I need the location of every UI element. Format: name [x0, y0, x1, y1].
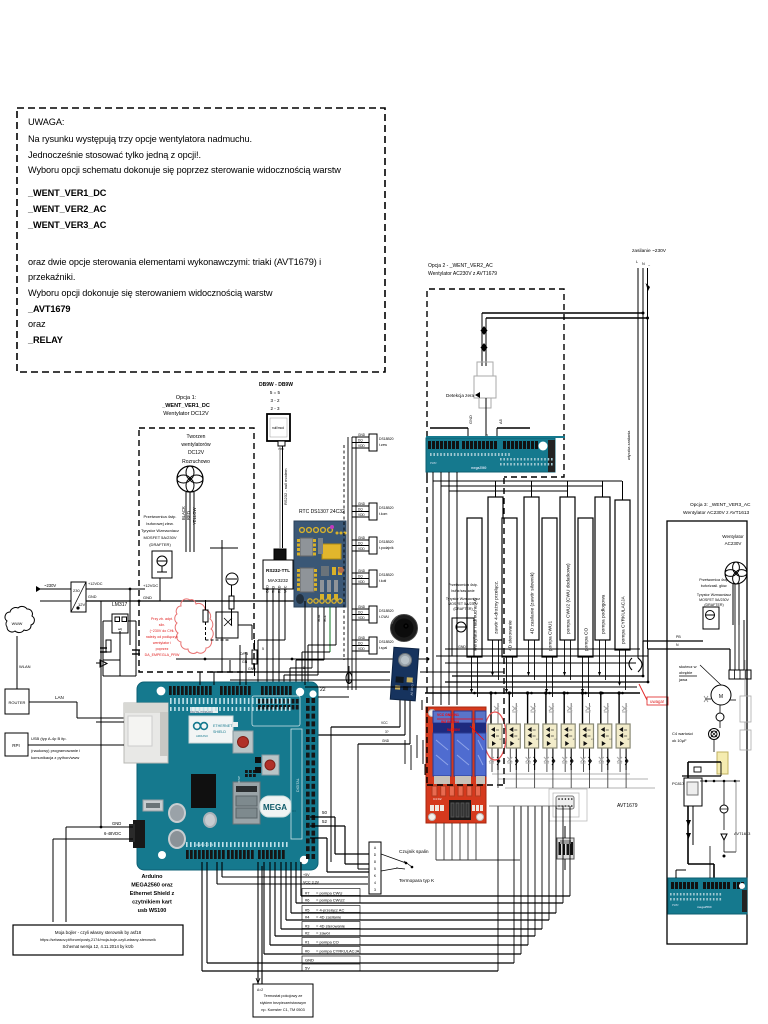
svg-text:Detekcja zera: Detekcja zera [446, 393, 475, 398]
svg-text:np. Komster C1, TM 0503: np. Komster C1, TM 0503 [261, 1008, 304, 1012]
svg-text:RTC DS1307 24C32: RTC DS1307 24C32 [299, 509, 345, 515]
svg-text:#6: #6 [305, 898, 310, 903]
svg-text:GND: GND [88, 595, 97, 599]
svg-text:4D zasilanie (zawór siłownik): 4D zasilanie (zawór siłownik) [530, 572, 536, 634]
svg-text:Moja bojler - czyli własny ste: Moja bojler - czyli własny sterownik by … [55, 930, 142, 935]
svg-text:PWR: PWR [430, 461, 437, 465]
svg-text:SHIELD: SHIELD [213, 730, 226, 734]
svg-text:DS18B20: DS18B20 [379, 540, 394, 544]
svg-text:t.zew: t.zew [379, 443, 387, 447]
svg-text:GND: GND [112, 821, 121, 826]
svg-text:Ethernet Shield z: Ethernet Shield z [130, 891, 175, 897]
svg-text:(DRAFTER): (DRAFTER) [453, 607, 472, 611]
svg-text:Termostat pokojowy ze: Termostat pokojowy ze [264, 994, 303, 998]
svg-text:C4 wartości: C4 wartości [672, 731, 693, 736]
svg-text:bufor/zasilanie: bufor/zasilanie [451, 589, 474, 593]
svg-text:PB: PB [676, 635, 681, 639]
svg-text:Schemat wersja 12, 4.11.2014 b: Schemat wersja 12, 4.11.2014 by krzb [63, 944, 135, 949]
svg-text:D/PB: D/PB [240, 652, 249, 656]
svg-text:4D sterowanie: 4D sterowanie [508, 620, 514, 651]
svg-text:Wentylator AC230V z AVT1679: Wentylator AC230V z AVT1679 [428, 271, 497, 277]
svg-text:PWR: PWR [672, 903, 679, 907]
svg-text:uwaga!: uwaga! [650, 699, 664, 704]
svg-text:= 4-przełącz AC: = 4-przełącz AC [316, 908, 344, 913]
svg-text:VCC: VCC [381, 721, 388, 725]
svg-text:AVT1679: AVT1679 [617, 803, 638, 809]
svg-text:MAX3232: MAX3232 [268, 578, 289, 583]
svg-text:#7: #7 [305, 891, 310, 896]
svg-text:GND: GND [358, 569, 366, 573]
svg-text:pompa CYRKULACJA: pompa CYRKULACJA [621, 595, 627, 644]
svg-text:VDD: VDD [358, 616, 365, 620]
svg-text:ARDUINO: ARDUINO [196, 734, 208, 738]
svg-text:VCC 3,3V: VCC 3,3V [303, 881, 320, 885]
svg-text:Wyboru opcji schematu dokonuje: Wyboru opcji schematu dokonuje się poprz… [28, 165, 341, 175]
svg-text:= pompa CYRKULACJA: = pompa CYRKULACJA [316, 949, 360, 954]
svg-text:USB (typ A-4p B itp.: USB (typ A-4p B itp. [31, 736, 67, 741]
svg-text:DS18B20: DS18B20 [379, 573, 394, 577]
svg-text:AVT1613: AVT1613 [734, 831, 751, 836]
svg-text:komunikacja z python/www: komunikacja z python/www [31, 755, 79, 760]
svg-text:Przetwornica 4stp.: Przetwornica 4stp. [699, 578, 729, 582]
svg-text:VDD: VDD [358, 547, 365, 551]
svg-text:VDD: VDD [358, 444, 365, 448]
svg-text:Czujnik spalin: Czujnik spalin [399, 849, 429, 855]
svg-text:DS18B20: DS18B20 [379, 437, 394, 441]
svg-text:DQ: DQ [358, 439, 363, 443]
svg-text:(DRAFTER): (DRAFTER) [149, 542, 171, 547]
svg-text:GND: GND [358, 433, 366, 437]
svg-text:IN2 IN3 IN4: IN2 IN3 IN4 [441, 720, 459, 724]
svg-text:= zawór: = zawór [316, 931, 331, 936]
svg-text:Tyrystor Wzmacniacz: Tyrystor Wzmacniacz [141, 528, 179, 533]
svg-text:t.spal: t.spal [379, 646, 387, 650]
svg-text:GND: GND [358, 636, 366, 640]
svg-text:GND: GND [266, 585, 270, 593]
svg-text:5: 5 [374, 867, 376, 871]
svg-text:DS18B20: DS18B20 [379, 609, 394, 613]
svg-text:5V: 5V [305, 966, 310, 971]
svg-text:Wentylator AC230V z AVT1613: Wentylator AC230V z AVT1613 [683, 510, 750, 516]
svg-text:= 4D zasilanie: = 4D zasilanie [316, 915, 342, 920]
svg-text:TXD: TXD [272, 586, 276, 593]
svg-text:= pompa CO: = pompa CO [316, 940, 339, 945]
svg-text:Przetwornica 4stp.: Przetwornica 4stp. [448, 583, 478, 587]
svg-text:Przetwornica 4stp.: Przetwornica 4stp. [144, 514, 177, 519]
svg-text:VDD: VDD [358, 580, 365, 584]
svg-text:Rozruchowo: Rozruchowo [182, 459, 210, 465]
svg-text:t.CWU: t.CWU [379, 615, 390, 619]
svg-text:adj: adj [118, 627, 122, 631]
svg-text:oraz: oraz [28, 319, 46, 329]
svg-text:DIGITAL: DIGITAL [296, 778, 300, 792]
svg-text:GND: GND [358, 536, 366, 540]
svg-text:SCL: SCL [323, 615, 327, 622]
svg-text:RS232 - null modem: RS232 - null modem [283, 468, 288, 505]
svg-text:VDD: VDD [358, 647, 365, 651]
svg-text:DIGITAL PWM+DKI: DIGITAL PWM+DKI [190, 710, 213, 714]
svg-text:R3: R3 [292, 809, 296, 813]
svg-text:GND: GND [143, 595, 152, 600]
svg-text:2 - 3: 2 - 3 [270, 406, 280, 411]
svg-text:_AVT1679: _AVT1679 [27, 304, 70, 314]
svg-text:PC817: PC817 [672, 781, 685, 786]
svg-text:= 4D sterowanie: = 4D sterowanie [316, 924, 346, 929]
svg-text:Tworzen: Tworzen [187, 434, 206, 440]
svg-text:MOSFET 5A/230V: MOSFET 5A/230V [699, 598, 729, 602]
svg-text:DC12V: DC12V [188, 450, 205, 456]
svg-text:YELLOW: YELLOW [192, 507, 197, 525]
svg-text:Wentylator: Wentylator [722, 534, 744, 539]
svg-text:LM317: LM317 [112, 602, 128, 608]
svg-text:skutecz w: skutecz w [679, 664, 697, 669]
svg-text:RXD: RXD [278, 585, 282, 593]
svg-text:bufor/zasil. głów.: bufor/zasil. głów. [701, 584, 728, 588]
svg-text:zasilanie ~230V: zasilanie ~230V [632, 248, 667, 254]
svg-text:230: 230 [73, 588, 80, 593]
svg-text:~230V: ~230V [44, 583, 56, 588]
svg-text:zawór 4-drożny przełącz.: zawór 4-drożny przełącz. [494, 581, 500, 634]
svg-text:4: 4 [374, 881, 376, 885]
svg-text:+12VDC: +12VDC [88, 582, 103, 586]
svg-text:5A 250V: 5A 250V [447, 728, 461, 732]
svg-text:12V: 12V [78, 602, 85, 607]
svg-text:Przy zb. adpt.: Przy zb. adpt. [151, 617, 173, 621]
svg-text:#3: #3 [305, 924, 310, 929]
svg-text:= pompa CWU: = pompa CWU [316, 891, 342, 896]
svg-text:Opcja 3: _WENT_VER3_AC: Opcja 3: _WENT_VER3_AC [690, 502, 751, 508]
svg-text:ok 10μF: ok 10μF [672, 738, 687, 743]
svg-text:3?: 3? [385, 730, 389, 734]
svg-text:GND: GND [305, 958, 314, 963]
svg-text:Tyrystor Wzmacniacz: Tyrystor Wzmacniacz [697, 593, 731, 597]
svg-text:AC230V: AC230V [725, 541, 742, 546]
svg-text:pompa CWU1: pompa CWU1 [548, 621, 554, 651]
svg-text:3: 3 [374, 888, 376, 892]
svg-text:mega2560: mega2560 [697, 905, 712, 909]
svg-text:ETHERNET: ETHERNET [213, 724, 233, 728]
svg-text:null/mod: null/mod [272, 426, 284, 430]
svg-text:MOSFET 5A/230V: MOSFET 5A/230V [143, 535, 176, 540]
svg-text:RED: RED [186, 511, 191, 520]
svg-text:Termopara typ K: Termopara typ K [399, 878, 435, 884]
svg-text:GND: GND [248, 667, 256, 671]
svg-text:Wentylator DC12V: Wentylator DC12V [163, 411, 209, 417]
svg-text:ICSP: ICSP [237, 776, 241, 783]
svg-text:DQ: DQ [358, 508, 363, 512]
svg-text:Wyboru opcji dokonuje się ster: Wyboru opcji dokonuje się sterowaniem wi… [28, 288, 273, 298]
svg-text:Opcja 2 - _WENT_VER2_AC: Opcja 2 - _WENT_VER2_AC [428, 263, 493, 269]
svg-text:GND: GND [358, 502, 366, 506]
svg-text:Jednocześnie stosować tylko je: Jednocześnie stosować tylko jedną z opcj… [28, 150, 201, 160]
svg-text:3 - 2: 3 - 2 [270, 398, 280, 403]
svg-text:DS18B20: DS18B20 [379, 640, 394, 644]
svg-text:6-48VDC: 6-48VDC [104, 831, 121, 836]
svg-text:VCC GND IN1: VCC GND IN1 [437, 713, 459, 717]
svg-text:_RELAY: _RELAY [27, 335, 63, 345]
svg-text:RS232-TTL: RS232-TTL [266, 568, 290, 573]
svg-text:pompa CWU2 (CWU dodatkowe): pompa CWU2 (CWU dodatkowe) [566, 563, 572, 634]
svg-text:C4 D2: C4 D2 [433, 797, 442, 801]
svg-text:_WENT_VER1_DC: _WENT_VER1_DC [161, 403, 210, 409]
svg-text:DQ: DQ [358, 642, 363, 646]
svg-text:t.kom: t.kom [379, 512, 387, 516]
svg-text:t.kotł: t.kotł [379, 579, 386, 583]
svg-text:MM: MM [279, 447, 284, 451]
svg-text:MEGA2560 oraz: MEGA2560 oraz [131, 883, 173, 889]
svg-text:wentylatorów: wentylatorów [181, 442, 211, 448]
svg-text:VDD: VDD [358, 513, 365, 517]
svg-text:wtyczka zasilania: wtyczka zasilania [627, 430, 631, 460]
svg-text:pompa CO: pompa CO [584, 628, 590, 651]
svg-text:5: 5 [262, 647, 264, 651]
svg-text:= pompa CWU2: = pompa CWU2 [316, 898, 345, 903]
svg-text:siln.: siln. [159, 623, 165, 627]
svg-text:#0: #0 [305, 949, 310, 954]
svg-text:usb W5100: usb W5100 [138, 908, 167, 914]
svg-text:GND: GND [382, 739, 390, 743]
svg-text:obrębie: obrębie [679, 670, 693, 675]
svg-text:DQ: DQ [358, 611, 363, 615]
svg-text:https://sebasov.pl/forum/posty: https://sebasov.pl/forum/posty,2174/moja… [40, 938, 156, 942]
svg-text:DS18B20: DS18B20 [379, 506, 394, 510]
svg-text:poprzez: poprzez [156, 647, 169, 651]
svg-text:MEGA: MEGA [263, 803, 287, 812]
svg-text:5 = 5: 5 = 5 [270, 390, 281, 395]
svg-text:GND: GND [468, 415, 473, 424]
svg-text:stykiem bezpieczeństwowym: stykiem bezpieczeństwowym [260, 1001, 306, 1005]
svg-text:DB9W - DB9W: DB9W - DB9W [259, 382, 293, 388]
svg-text:(DRAFTER): (DRAFTER) [704, 603, 723, 607]
svg-text:należy od podłączyć: należy od podłączyć [146, 635, 179, 639]
svg-text:A5: A5 [498, 418, 503, 424]
svg-text:A=2: A=2 [257, 988, 263, 992]
svg-text:50: 50 [322, 810, 328, 815]
svg-text:MOSFET 5A/230V: MOSFET 5A/230V [448, 602, 478, 606]
svg-text:DQ: DQ [358, 542, 363, 546]
svg-text:ROUTER: ROUTER [9, 700, 26, 705]
svg-text:DQ: DQ [358, 575, 363, 579]
svg-text:M: M [719, 694, 723, 700]
svg-text:RPI: RPI [12, 743, 20, 748]
svg-text:oraz dwie opcje sterowania ele: oraz dwie opcje sterowania elementami wy… [28, 257, 321, 267]
svg-text:#4: #4 [305, 915, 310, 920]
svg-text:_WENT_VER1_DC: _WENT_VER1_DC [27, 188, 107, 198]
svg-text:czytnikiem kart: czytnikiem kart [132, 900, 172, 906]
svg-text:#1: #1 [305, 940, 310, 945]
svg-text:Tyrystor Wzmacniacz: Tyrystor Wzmacniacz [446, 597, 480, 601]
svg-text:WLAN: WLAN [19, 664, 31, 669]
svg-text:#2: #2 [305, 931, 310, 936]
svg-text:L: L [636, 260, 638, 264]
svg-text:52: 52 [322, 819, 328, 824]
svg-text:LAN: LAN [55, 695, 64, 700]
svg-text:(~230V do CHŁ: (~230V do CHŁ [150, 629, 175, 633]
svg-text:_WENT_VER3_AC: _WENT_VER3_AC [27, 220, 107, 230]
svg-text:mega2560: mega2560 [471, 466, 487, 470]
svg-text:GN: GN [242, 660, 248, 664]
svg-text:+5V: +5V [303, 873, 310, 877]
svg-text:Opcja 1:: Opcja 1: [176, 395, 197, 401]
svg-text:22: 22 [320, 687, 326, 693]
svg-text:przekaźniki.: przekaźniki. [28, 272, 75, 282]
svg-text:SDA: SDA [317, 614, 321, 622]
svg-text:#5: #5 [305, 908, 310, 913]
svg-text:GND: GND [458, 645, 466, 649]
svg-text:(naukowy) programowanie i: (naukowy) programowanie i [31, 748, 80, 753]
svg-text:_WENT_VER2_AC: _WENT_VER2_AC [27, 204, 107, 214]
svg-text:N: N [642, 262, 645, 266]
svg-text:jawa: jawa [678, 677, 688, 682]
svg-text:DA_EMPEGLA_PRW: DA_EMPEGLA_PRW [145, 653, 180, 657]
svg-text:Na rysunku występują trzy opcj: Na rysunku występują trzy opcje wentylat… [28, 134, 252, 144]
svg-text:pompa podłogowa: pompa podłogowa [601, 594, 607, 634]
svg-text:Arduino: Arduino [141, 874, 163, 880]
svg-text:+12VDC: +12VDC [143, 583, 158, 588]
svg-text:8: 8 [374, 860, 376, 864]
svg-text:UWAGA:: UWAGA: [28, 117, 64, 127]
svg-text:t.podajnik: t.podajnik [379, 546, 394, 550]
svg-text:WWW: WWW [12, 622, 23, 626]
svg-text:buforowej zlew.: buforowej zlew. [146, 521, 173, 526]
svg-text:GND: GND [358, 605, 366, 609]
svg-text:wentylator i: wentylator i [153, 641, 171, 645]
